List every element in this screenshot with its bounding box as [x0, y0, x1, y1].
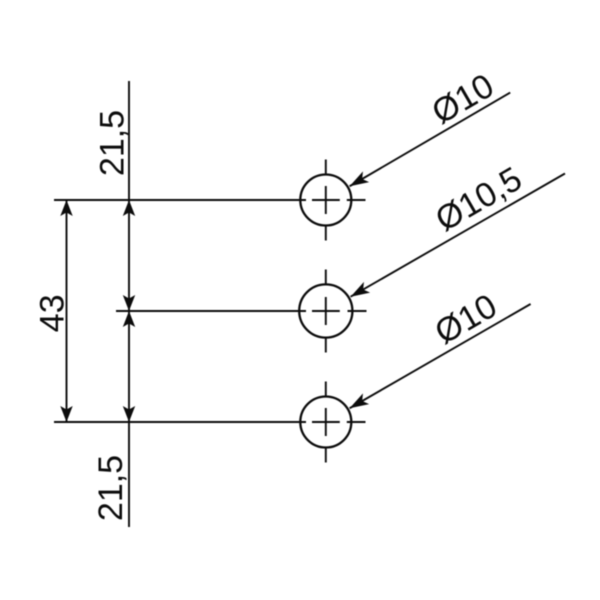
leader arrowhead 1 — [347, 171, 370, 191]
hole circle 3 (Ø10) — [300, 397, 351, 448]
dim arrow down at H3/V2 — [60, 406, 72, 422]
dim arrow up at H2/V1 — [123, 311, 135, 327]
vertical dimension line V1 — [128, 81, 130, 527]
svg-text:21,5: 21,5 — [92, 455, 130, 521]
dim arrow down at H2/V1 — [123, 295, 135, 311]
horizontal line H1 (hole 1 level) — [54, 199, 306, 201]
vertical dimension line V2 (43 dim) — [66, 200, 68, 422]
dim arrow up at H1/V1 — [123, 200, 135, 216]
horizontal line H3 (hole 3 level) — [54, 421, 306, 423]
hole circle 1 (Ø10) — [300, 175, 351, 226]
leader line 1 — [350, 93, 511, 187]
centerline cross hole 2 — [312, 270, 367, 353]
hole circle 2 (Ø10,5) — [299, 284, 352, 337]
centerline cross hole 1 — [312, 160, 366, 241]
dim arrow up at H1/V2 — [60, 200, 72, 216]
leader line 2 — [351, 174, 565, 297]
leader arrowhead 2 — [348, 282, 371, 302]
leader line 3 — [350, 304, 531, 408]
horizontal line H2 (hole 2 level) — [116, 310, 306, 312]
centerline cross hole 3 — [312, 382, 366, 463]
leader arrowhead 3 — [347, 393, 370, 413]
dim arrow down at H3/V1 — [123, 406, 135, 422]
svg-text:21,5: 21,5 — [93, 110, 131, 176]
svg-text:43: 43 — [34, 294, 72, 332]
